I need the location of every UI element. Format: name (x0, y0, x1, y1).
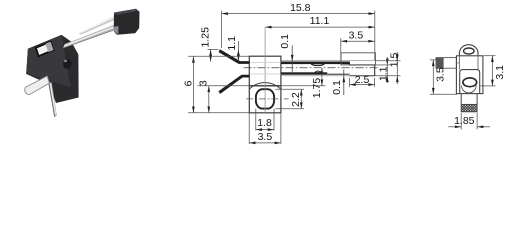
svg-text:0.1: 0.1 (279, 34, 291, 49)
svg-text:1.75: 1.75 (311, 78, 323, 99)
dimension 1.85 (448, 113, 490, 130)
side view: tip bottom dark (349, 75, 374, 77)
svg-text:1.5: 1.5 (389, 53, 401, 68)
dimension 11.1 (265, 15, 375, 28)
dimension 3.5 top (341, 30, 375, 61)
side view: tip top line (349, 64, 374, 66)
front view: bottom boss arc (462, 86, 477, 93)
dimension 1.1 left (226, 36, 240, 61)
photo: flat lower-left pin (25, 76, 50, 95)
side view: faint rod lines through head (250, 61, 281, 63)
side view: bottom bump on rod (315, 71, 321, 72)
dimension 6 (183, 56, 250, 113)
front view: main body (456, 56, 483, 94)
photo: sensor body block (26, 35, 78, 103)
dimension 3.1 (481, 56, 507, 86)
dimension 3 (198, 80, 250, 113)
side view: rod thin grey bottom edge (281, 75, 375, 77)
side view: rod thick top line (281, 62, 350, 65)
photo: thin lower pin (48, 82, 57, 117)
svg-text:11.1: 11.1 (310, 15, 330, 27)
svg-text:1.25: 1.25 (200, 27, 212, 48)
front view: hatched pin section (461, 104, 477, 111)
dimension 1.1 right (375, 57, 391, 83)
side view: rod thin grey top edge (281, 60, 375, 62)
side view: head block (249, 56, 281, 86)
photo: lower metal shaft to cap (63, 25, 115, 49)
side view: lower block (249, 86, 281, 113)
photo: side boss (63, 59, 72, 69)
side view: top bump on rod (311, 64, 324, 66)
front view: channel lines between domes (458, 56, 460, 70)
svg-text:3: 3 (198, 80, 210, 86)
photo: black cap (114, 9, 140, 35)
svg-text:3.1: 3.1 (494, 65, 506, 80)
dimension 0.1 left (279, 34, 293, 74)
front view: top oval hole (464, 48, 475, 54)
svg-text:1.1: 1.1 (226, 36, 238, 51)
svg-text:2.2: 2.2 (290, 92, 302, 107)
side view: tip end (374, 65, 376, 76)
side view: boss arc over lower block (250, 83, 281, 89)
photo: window hole on top face (36, 42, 54, 57)
svg-text:2.5: 2.5 (355, 74, 370, 86)
svg-text:3.5: 3.5 (349, 30, 364, 42)
dimension 1.8 (256, 109, 274, 131)
dimension 2.5 (350, 74, 375, 87)
svg-text:1.8: 1.8 (257, 117, 272, 129)
dimension 0.1 right (331, 70, 345, 96)
side view: rod step at tip (348, 62, 350, 66)
side view: horizontal rod centerline (244, 67, 378, 69)
dimension 3.5 bottom (249, 114, 281, 145)
front view: neck (460, 94, 462, 105)
dimension 15.8 (222, 2, 375, 60)
svg-text:0.1: 0.1 (331, 80, 343, 95)
photo: upper needle rod (78, 17, 114, 35)
dimension 2.2 (276, 89, 305, 109)
side view: upper bent pin (219, 49, 250, 64)
svg-text:15.8: 15.8 (290, 2, 311, 14)
side view: lower bent pin (218, 75, 249, 94)
dimension 3.5 front view (430, 60, 457, 94)
dimension 1.25 (200, 27, 219, 62)
side view: rod thick bottom line (281, 72, 327, 74)
front view: lower dome (460, 70, 480, 94)
svg-text:3.5: 3.5 (258, 131, 273, 143)
svg-text:1.85: 1.85 (454, 115, 475, 127)
side view: vertical centerline (264, 28, 266, 113)
front view: left pin (436, 58, 456, 69)
svg-text:6: 6 (183, 80, 195, 86)
front view: lower oval hole (463, 78, 477, 87)
svg-text:3.5: 3.5 (435, 67, 447, 82)
side view: phantom cap rectangle (341, 53, 375, 65)
dimension 1.75 (281, 68, 326, 99)
side view: stadium horizontal centerline (246, 98, 288, 100)
dimension 1.5 (375, 52, 401, 84)
front view: top dome (459, 45, 478, 56)
svg-text:1.1: 1.1 (378, 66, 390, 81)
side view: stadium hole (256, 89, 274, 108)
